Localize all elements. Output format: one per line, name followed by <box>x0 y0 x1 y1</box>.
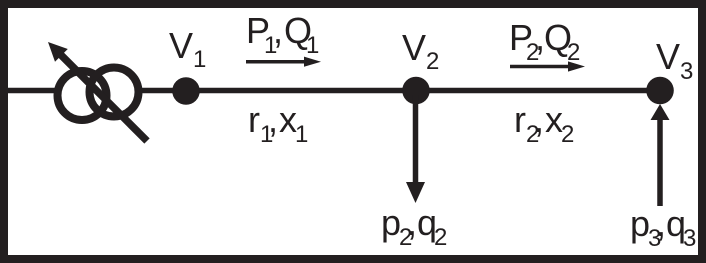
label V1 <box>169 25 206 73</box>
label r2, x2 (line impedance) <box>514 99 574 148</box>
svg-text:r: r <box>248 99 260 140</box>
svg-text:V: V <box>169 25 193 66</box>
transformer T1: secondary winding circle <box>90 68 139 117</box>
label r1, x1 (line impedance) <box>248 99 308 148</box>
wire: left stub from frame to transformer <box>8 88 55 94</box>
node V1 (bus dot) <box>172 77 200 105</box>
node V2 (bus dot) <box>402 77 430 105</box>
svg-text:,: , <box>268 99 278 140</box>
label P2, Q2 <box>509 17 580 66</box>
svg-text:2: 2 <box>561 121 574 148</box>
label p3, q3 (injection at V3) <box>630 203 696 252</box>
svg-text:3: 3 <box>680 58 693 85</box>
wire: main feeder from transformer through V1, V2 to V3 <box>140 88 660 94</box>
svg-text:3: 3 <box>683 225 696 252</box>
node V3 (bus dot) <box>646 77 674 105</box>
svg-text:1: 1 <box>295 121 308 148</box>
svg-text:2: 2 <box>434 224 447 251</box>
svg-text:,: , <box>407 202 417 243</box>
transformer tap-changer arrow through windings <box>48 42 147 141</box>
svg-text:,: , <box>656 203 666 244</box>
load arrow at V2 (downward) <box>406 95 425 203</box>
label V2 <box>402 27 439 75</box>
injection arrow at V3 (upward into node) <box>651 104 670 206</box>
svg-text:,: , <box>534 99 544 140</box>
svg-text:V: V <box>656 36 680 77</box>
label p2, q2 (load at V2) <box>381 202 447 251</box>
label P1, Q1 <box>246 10 319 59</box>
transformer T1: primary winding circle (white filled) <box>58 71 107 120</box>
svg-text:2: 2 <box>426 48 439 75</box>
label V3 <box>656 36 693 85</box>
svg-text:V: V <box>402 27 426 68</box>
power flow arrow P1,Q1 <box>246 57 321 67</box>
svg-text:1: 1 <box>306 32 319 59</box>
svg-text:r: r <box>514 99 526 140</box>
power flow arrow P2,Q2 <box>510 61 585 71</box>
svg-text:,: , <box>273 10 283 51</box>
svg-text:1: 1 <box>193 46 206 73</box>
